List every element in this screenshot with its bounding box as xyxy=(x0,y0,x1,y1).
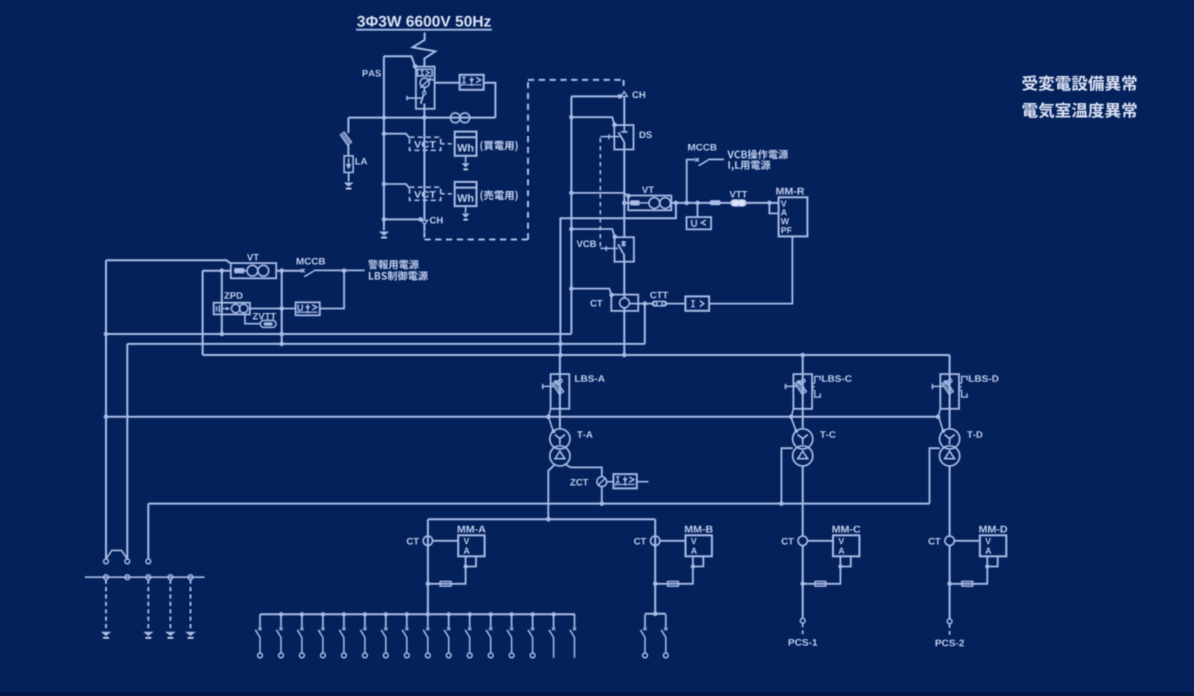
label T-A xyxy=(577,431,593,438)
junction CT secondary xyxy=(643,301,648,306)
wire bus A xyxy=(106,333,571,335)
PAS switch operating rod xyxy=(407,96,422,100)
fuse in VT left box xyxy=(234,268,245,273)
label Wh2 xyxy=(457,194,473,202)
junction main-VT tap xyxy=(622,201,627,206)
wire feed into LBS-D xyxy=(949,355,951,374)
LBS-C contact circle xyxy=(802,379,806,383)
junction ZPD out xyxy=(279,306,284,311)
transformer T-A delta circle xyxy=(550,446,570,466)
wire T-D output xyxy=(949,466,951,536)
wire MM-B riser xyxy=(654,519,656,614)
wire left bus to ground xyxy=(383,219,385,230)
junction busC-LBSC xyxy=(800,353,805,358)
dashed drop to PCS-1 xyxy=(802,623,804,636)
wire bus E xyxy=(148,503,929,505)
label ZVTT xyxy=(253,313,276,320)
label (買電用) purchased power xyxy=(480,141,517,152)
ground below LA xyxy=(344,183,354,190)
terminal PCS-1 xyxy=(800,618,805,623)
label LBS-D xyxy=(969,375,999,382)
label VTT xyxy=(730,191,748,198)
label LBS-A xyxy=(575,375,605,382)
disconnect switch DS box xyxy=(614,125,633,149)
dashed earth drops bottom-left xyxy=(106,580,191,630)
ZPD transformer coils xyxy=(231,304,248,313)
wire left vertical 148 xyxy=(147,504,149,559)
wire DS to VT tap xyxy=(623,142,625,203)
wire distribution bus 2 xyxy=(645,613,666,615)
combined VT/CT unit VCT1 (dashed) xyxy=(410,137,441,150)
label MM-D xyxy=(979,526,1007,533)
earth fault relay I↓> box xyxy=(460,75,484,90)
ground below Wh1 xyxy=(462,163,470,170)
ground arrow 4 xyxy=(185,632,196,639)
earth fault relay I↓> box at ZCT xyxy=(613,474,636,488)
wire LBS-A through xyxy=(559,374,561,428)
LA arrow symbol xyxy=(346,158,352,170)
combined VT/CT unit VCT2 (dashed) xyxy=(410,187,441,200)
terminal PCS-2 xyxy=(947,619,952,624)
LBS-D fuse striker bracket xyxy=(959,376,967,397)
junction busA left xyxy=(104,332,109,337)
cable head CH right triangle xyxy=(621,92,627,97)
wire MM-C drop xyxy=(802,546,804,619)
label LBS-C xyxy=(822,375,852,382)
distribution bus 1 junction dots xyxy=(279,612,556,616)
overcurrent relay I> box xyxy=(685,296,709,310)
wire MM-R output xyxy=(709,236,792,303)
junction MM-B tail xyxy=(691,564,695,568)
wire busD diagonal to T-D xyxy=(939,417,944,431)
LBS-D hatched fuse blade xyxy=(942,381,954,395)
LBS-D operating rod xyxy=(932,384,945,389)
wire VT out xyxy=(671,202,698,204)
label ZPD xyxy=(224,292,242,299)
wire to U< relay xyxy=(697,203,699,217)
load break switch LBS-D box xyxy=(940,374,959,409)
wire LBS-D through xyxy=(949,374,951,428)
junction bypass-DS xyxy=(569,115,574,120)
wire feed into LBS-A xyxy=(559,355,561,374)
text 受変電設備異常 xyxy=(1022,75,1137,91)
zero-phase CT ZCT circle xyxy=(597,477,607,487)
wire to MCCB right xyxy=(687,160,695,203)
ZPD capacitor-earth symbol xyxy=(217,305,231,312)
current transformer pair on incoming line xyxy=(450,113,469,123)
multimeter MM-R box xyxy=(779,197,808,236)
wire fuse to VT coils xyxy=(640,202,649,204)
wire incoming horizontal xyxy=(348,117,495,119)
label Wh1 xyxy=(457,144,473,152)
T-D star winding symbol xyxy=(944,435,954,445)
LBS-A hatched fuse blade xyxy=(552,381,564,395)
wire bus D xyxy=(106,416,939,418)
fuse VT secondary xyxy=(710,200,721,205)
label VCT1 xyxy=(414,141,436,148)
wire MM-C tail down xyxy=(803,567,841,584)
transformer T-A star circle xyxy=(550,429,570,449)
junction ZPD tap xyxy=(220,268,225,273)
label LBS制御電源 xyxy=(369,271,428,281)
fuse at MM-D xyxy=(962,581,973,586)
label A in MM-A xyxy=(464,548,470,554)
junction MM-A feeder xyxy=(426,582,431,587)
junction LBS-D output xyxy=(936,415,941,420)
junction busE-TC xyxy=(779,501,784,506)
junction VCT2 tap xyxy=(382,182,387,187)
wire MM-R second input xyxy=(769,203,778,214)
junction busF-TA xyxy=(546,517,551,522)
wire main vertical CH to DS xyxy=(623,96,625,125)
label A in MM-D xyxy=(985,548,991,554)
transformer T-D delta circle xyxy=(940,446,960,466)
voltage transformer VT box right xyxy=(628,196,671,211)
dashed link VCT1 to Wh1 xyxy=(441,143,455,145)
T-C delta winding symbol xyxy=(798,451,808,459)
wire feed into LBS-C xyxy=(802,355,804,374)
title 3Φ3W 6600V 50Hz xyxy=(357,16,491,27)
junction DS box corner xyxy=(612,123,617,128)
label MM-C xyxy=(832,526,860,533)
junction CH right xyxy=(618,94,623,99)
junction MM-C tail xyxy=(838,564,842,568)
wire PAS left branch xyxy=(384,56,415,66)
current test terminal CTT symbol xyxy=(652,301,666,306)
fuse at MM-C xyxy=(815,581,826,586)
wire control riser left xyxy=(202,271,204,355)
wire CT to MM-D xyxy=(954,540,980,542)
wire CTT to OC relay xyxy=(667,303,686,305)
junction bypass-VCB xyxy=(569,227,574,232)
label VCT2 xyxy=(414,191,436,198)
zero-phase potential device ZPD box xyxy=(214,303,250,315)
wire MM-A tail down xyxy=(428,567,466,584)
wire MM-D tail down xyxy=(950,567,988,584)
label CT at MM-D xyxy=(929,538,941,545)
VCB switch blade xyxy=(618,244,623,253)
label PCS-2 xyxy=(936,640,964,647)
bottom edge strip xyxy=(0,692,1194,696)
junction PAS top-left xyxy=(413,64,418,69)
wire left metering bus xyxy=(383,56,385,219)
wire CH right tap xyxy=(571,95,619,97)
wire CT secondary xyxy=(629,303,652,305)
label T-D xyxy=(967,431,982,438)
U< relay symbol xyxy=(692,220,706,227)
label T-C xyxy=(820,431,836,438)
label LA xyxy=(355,158,367,165)
junction main line to bus C xyxy=(622,353,627,358)
LBS-A contact cross xyxy=(554,380,558,384)
wire busD diagonal to T-C xyxy=(791,417,796,431)
LBS-C hatched fuse blade xyxy=(795,381,807,395)
current transformer CT at MM-A xyxy=(423,536,432,545)
under-voltage relay U< box xyxy=(687,217,712,229)
wire ZCT down to bus E xyxy=(601,487,603,504)
load break switch LBS-C box xyxy=(793,374,812,409)
label A in MM-B xyxy=(691,548,697,554)
wire ZPD to ZVTT xyxy=(245,314,260,323)
junction alarm-busB xyxy=(279,342,284,347)
label VT left xyxy=(247,254,259,261)
disconnector hatched blade for LA xyxy=(340,132,351,145)
ground arrow 2 xyxy=(143,632,154,639)
wire bus F xyxy=(428,518,655,520)
junction MCCB branch xyxy=(684,201,689,206)
zero-voltage test terminal ZVTT symbol xyxy=(260,320,276,327)
junction VCB box corner xyxy=(613,234,618,239)
wire ZPD out xyxy=(250,308,296,310)
label CTT xyxy=(650,292,668,299)
wire bypass to DS box xyxy=(571,117,614,124)
label DS xyxy=(640,131,652,138)
junction MM-A tail xyxy=(464,564,468,568)
label MCCB left xyxy=(297,258,325,265)
title underline xyxy=(356,29,492,31)
pole air switch PAS enclosure xyxy=(416,67,435,109)
wire bypass to VCB box xyxy=(571,229,614,236)
T-A delta winding symbol xyxy=(555,451,565,459)
LBS-D contact cross xyxy=(944,380,948,384)
junction bypass-CT xyxy=(569,286,574,291)
junction busD left xyxy=(104,415,109,420)
wire MCCB left out xyxy=(314,269,365,271)
breaker MCCB right xyxy=(695,158,708,166)
wire LBS-A output to bus D xyxy=(549,409,551,416)
label CT at MM-A xyxy=(407,538,419,545)
junction MM-B feeder xyxy=(653,582,658,587)
junction cable head left xyxy=(418,217,423,222)
label PCS-1 xyxy=(789,639,818,646)
junction MM-D feeder xyxy=(947,582,952,587)
wire ZPD vertical xyxy=(221,271,223,334)
junction secondary-busB xyxy=(558,342,563,347)
label MM-R xyxy=(776,188,804,195)
breaker MCCB left xyxy=(301,269,314,277)
earth-fault relay circle with slash in PAS xyxy=(420,78,435,88)
wire VT bus to MM-R xyxy=(698,202,780,204)
current transformer CT at MM-C xyxy=(798,536,807,545)
LBS-C fuse striker bracket xyxy=(812,376,820,397)
wire PAS to relay xyxy=(435,82,460,84)
dashed drop to PCS-2 xyxy=(949,624,951,637)
wire tap to VCT1 xyxy=(384,134,410,138)
junction T-A top xyxy=(552,430,556,434)
junction MM-C feeder xyxy=(800,582,805,587)
label MM-A xyxy=(458,526,486,533)
label V in MM-A xyxy=(464,538,470,544)
wire ZCT to relay xyxy=(607,481,614,483)
CT circle on main line xyxy=(620,298,630,308)
fuse at MM-B xyxy=(668,581,679,586)
transformer T-C delta circle xyxy=(793,446,813,466)
ground arrow 3 xyxy=(165,632,176,639)
T-A star winding symbol xyxy=(555,435,565,445)
junction alarm branch xyxy=(342,268,347,273)
T-C star winding symbol xyxy=(798,435,808,445)
wire MM-C tail loop xyxy=(840,556,850,566)
wire VT tap stub xyxy=(624,202,630,204)
relay I↓> symbol at ZCT xyxy=(616,476,635,486)
wire left vertical 106 xyxy=(105,260,107,559)
DS switch blade xyxy=(618,132,624,141)
label V in MM-B xyxy=(691,538,697,544)
junction T-D top xyxy=(941,429,945,433)
label VCB操作電源 xyxy=(727,150,788,160)
junction busA-ZPD xyxy=(220,332,225,337)
label A in MM-C xyxy=(839,548,845,554)
ground below Wh2 xyxy=(462,214,470,221)
transformer T-C star circle xyxy=(793,429,813,449)
wire below CH left xyxy=(423,225,425,232)
wire left vertical 127 xyxy=(126,344,128,559)
multimeter MM-B box xyxy=(686,535,712,556)
PAS switch contact circle xyxy=(423,91,426,94)
voltage transformer VT box left xyxy=(231,263,276,278)
vacuum circuit breaker VCB box xyxy=(615,237,634,262)
LBS-A operating rod xyxy=(542,384,555,389)
wire CT to MM-A xyxy=(433,540,459,542)
junction MM-R input xyxy=(767,201,772,206)
wire busD diagonal to T-A xyxy=(548,417,553,432)
wire main line PAS to CH xyxy=(423,118,425,220)
label V in MM-C xyxy=(838,538,844,544)
label MCCB right xyxy=(688,144,716,151)
label A in MM-R xyxy=(781,209,787,215)
VCB operating rod xyxy=(600,246,618,251)
jumper bridge terminals xyxy=(106,550,127,559)
label PAS xyxy=(363,70,381,77)
label I,L用電源 xyxy=(728,160,770,171)
label PF in MM-R xyxy=(781,227,791,233)
wire relay to line xyxy=(484,83,496,118)
kilowatt-hour meter Wh1 box xyxy=(455,132,477,156)
wire LA to ground xyxy=(348,172,350,181)
wire fuse to coils left xyxy=(245,270,247,272)
overcurrent relay I> box in PAS xyxy=(418,69,433,76)
junction MM-D tail xyxy=(985,564,989,568)
multimeter MM-C box xyxy=(833,535,859,556)
LBS-C contact cross xyxy=(797,380,801,384)
label (売電用) sold power xyxy=(480,190,517,201)
junction secondary-busC xyxy=(558,353,563,358)
wire PAS internal xyxy=(423,87,425,91)
wire LA blade to arrester xyxy=(347,144,349,156)
text 電気室温度異常 xyxy=(1023,102,1137,118)
T-D delta winding symbol xyxy=(945,451,955,459)
wire control bus left xyxy=(203,270,231,272)
wire CT to MM-B xyxy=(660,540,686,542)
wire CT secondary down xyxy=(644,304,646,344)
label CH right xyxy=(632,91,645,98)
zero-voltage relay U↓> box xyxy=(296,302,320,315)
wire T-C output xyxy=(802,466,804,536)
wire CH junction xyxy=(384,218,420,220)
relay U↓> symbol xyxy=(298,304,318,314)
terminal links bottom-left xyxy=(104,559,193,580)
multimeter MM-D box xyxy=(980,535,1006,556)
junction alarm-busA xyxy=(279,332,284,337)
junction VT box corner xyxy=(626,194,631,199)
wire CT through xyxy=(623,295,625,355)
voltage test terminal VTT symbol xyxy=(730,199,747,206)
LBS-A contact circle xyxy=(559,379,563,383)
label V in MM-R xyxy=(781,201,787,207)
wire T-A right branch xyxy=(565,464,602,477)
junction distribution bus 2 xyxy=(653,612,658,617)
dashed link VCT2 to Wh2 xyxy=(441,193,455,195)
wire VT secondary loop xyxy=(560,203,676,355)
junction T-C top xyxy=(794,429,798,433)
junction incoming-PAS xyxy=(422,115,427,120)
junction busE-ZCT xyxy=(600,501,605,506)
wire PAS bottom xyxy=(423,104,425,118)
current transformer CT at MM-B xyxy=(651,536,660,545)
distribution branch switches group 2 xyxy=(640,614,668,658)
load break switch LBS-A box xyxy=(551,374,570,409)
label VT right xyxy=(642,187,654,194)
wire MM-B tail down xyxy=(655,567,693,584)
junction CH-left tap xyxy=(382,217,387,222)
wire MM-A tail loop xyxy=(466,556,476,566)
I> relay symbol xyxy=(691,301,704,307)
relay I↓> symbol xyxy=(462,77,482,87)
wire Wh1 to ground xyxy=(465,156,467,163)
junction LBS-C output xyxy=(789,415,794,420)
PAS switch blade xyxy=(421,94,424,104)
label CH left xyxy=(430,217,443,224)
VCB contact star xyxy=(621,241,625,247)
wire bypass to VT box corner xyxy=(571,193,628,196)
junction incoming-left bus xyxy=(382,115,387,120)
ground below left bus xyxy=(379,232,389,239)
cable head CH left triangle xyxy=(421,220,427,224)
current transformer CT box xyxy=(611,295,638,311)
wire bypass to CT box xyxy=(571,289,611,295)
wire top feeder left xyxy=(106,260,231,263)
label CT at MM-C xyxy=(782,538,794,545)
I> symbol in PAS xyxy=(421,71,430,75)
wire relay stub xyxy=(637,481,649,483)
junction UV relay branch xyxy=(695,201,700,206)
lightning arrester LA box xyxy=(344,156,353,173)
junction CT box corner xyxy=(609,293,614,298)
label CT main xyxy=(590,300,602,307)
label ZCT xyxy=(570,479,588,486)
junction bypass-VT xyxy=(569,191,574,196)
wire MM-D tail loop xyxy=(987,556,997,566)
transformer T-D star circle xyxy=(940,429,960,449)
DS operating rod xyxy=(600,134,619,139)
wire LBS-D output to bus D xyxy=(939,409,941,416)
fuse at MM-A xyxy=(440,581,451,586)
junction control out left xyxy=(279,268,284,273)
wire LBS-C through xyxy=(802,374,804,428)
wire MCCB right out xyxy=(708,158,724,160)
VT right transformer coils xyxy=(649,198,671,209)
distribution branch switches group 1 xyxy=(255,614,576,658)
label MM-B xyxy=(685,526,713,533)
wire VCB through xyxy=(623,203,625,295)
DS fixed contact xyxy=(621,125,628,132)
junction VT secondary drop xyxy=(674,201,679,206)
label 警報用電源 xyxy=(368,260,419,270)
dashed cable route xyxy=(424,80,623,240)
wire bus B xyxy=(127,343,645,345)
wire MM-D drop xyxy=(949,546,951,619)
wire bypass vertical xyxy=(570,96,572,334)
